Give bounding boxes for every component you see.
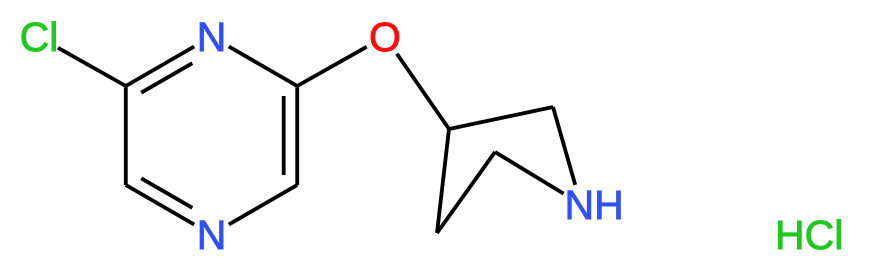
bond C4p-C3p (437, 129, 449, 233)
bond C3p-C2p (449, 107, 553, 129)
bond C3-N4 (229, 185, 297, 225)
bond Cl-C6 (58, 48, 126, 86)
bond C6=N1 outer (126, 47, 194, 87)
svg-text:O: O (369, 14, 401, 60)
svg-text:N: N (197, 14, 227, 60)
svg-text:N: N (197, 212, 227, 258)
bond N4=C5 outer (126, 185, 194, 225)
svg-text:HCl: HCl (775, 212, 843, 258)
svg-text:NH: NH (565, 182, 624, 228)
bond C2-O (297, 47, 367, 86)
bond O-C3p (397, 54, 449, 129)
bond N1p-C5p (495, 152, 564, 194)
bond N1-C2 (229, 47, 297, 87)
bond C5p-C4p (437, 152, 495, 233)
bond C5-C6 (124, 86, 128, 185)
bond C2=C3 outer (295, 86, 299, 185)
bond N4=C5 inner (141, 178, 192, 208)
svg-text:Cl: Cl (20, 14, 59, 60)
bond C2=C3 inner (282, 96, 286, 175)
bond C2p-N1p (553, 107, 575, 185)
bond C6=N1 inner (141, 63, 192, 92)
